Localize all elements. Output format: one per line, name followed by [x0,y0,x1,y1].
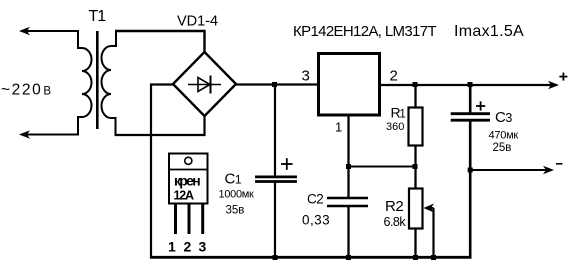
wire AC input bottom [21,134,79,136]
svg-text:1: 1 [335,120,342,135]
svg-text:крен: крен [174,173,200,189]
node C1 junction on + rail [272,82,277,87]
svg-text:470мк: 470мк [489,129,519,141]
node wiper on bottom rail [431,255,436,260]
svg-text:С2: С2 [307,192,323,207]
node C3 junction on + rail [468,82,473,87]
regulator package (TO-220 drawing) body [169,154,208,204]
resistor R2 leads [414,167,416,190]
wire secondary top to bridge [115,31,205,52]
svg-text:2: 2 [184,239,192,255]
minus terminal sign [556,163,562,165]
+ terminal sign [559,73,567,81]
svg-text:3: 3 [302,68,310,85]
svg-text:0,33: 0,33 [302,213,330,228]
wire regulator pin 1 down [347,115,349,198]
node R1 junction on + rail [413,82,418,87]
svg-text:Т1: Т1 [89,8,107,25]
svg-text:6.8k: 6.8k [384,215,407,229]
resistor R2 body (potentiometer) [409,189,423,229]
transformer T1 secondary winding [102,30,117,135]
svg-text:VD1-4: VD1-4 [177,14,218,30]
svg-text:12А: 12А [174,189,195,203]
wire secondary bottom to bridge bottom vertex [115,116,205,135]
package tab divider line [168,169,209,171]
wire AC input top [21,30,79,32]
capacitor C2 bottom lead [347,206,349,258]
svg-text:2: 2 [390,68,398,85]
transformer T1 core [96,31,99,129]
resistor R1 body [409,108,423,146]
bottom rail (DC-) [150,256,472,259]
capacitor C1 plus sign [281,158,293,170]
package leg 1 [174,204,177,234]
wire pin1 to R1/R2 junction [349,166,416,168]
svg-text:С1: С1 [225,171,242,188]
arrowhead AC top (points left) [19,27,30,35]
potentiometer wiper arrow [428,207,434,209]
svg-text:25в: 25в [493,142,512,154]
package leg 3 [201,204,204,234]
wire bridge left vertex (DC-) to bottom rail [151,85,173,259]
svg-text:35в: 35в [226,204,245,216]
wire minus output [470,169,551,171]
node C3 / minus-output junction [468,168,473,173]
node C2 on bottom rail [346,255,351,260]
capacitor C2 plates [327,197,368,199]
capacitor C1 leads [274,85,276,177]
svg-text:Imax1.5A: Imax1.5A [454,23,524,40]
wire wiper to bottom rail [432,208,434,258]
capacitor C1 plates [255,175,297,178]
wire bridge right vertex (DC+) to regulator input [236,83,318,85]
diode symbol inside bridge [188,76,221,94]
svg-text:КР142ЕН12А, LM317T: КР142ЕН12А, LM317T [293,23,436,40]
svg-text:R2: R2 [385,198,403,215]
diode bridge VD1-4 diamond [173,52,236,116]
svg-text:1000мк: 1000мк [219,188,255,200]
package leg 2 [188,204,191,234]
capacitor C3 plus sign [476,101,485,110]
voltage regulator U1 box [319,54,380,116]
arrowhead AC bottom (points left) [19,130,30,138]
svg-text:3: 3 [199,239,207,255]
node R1/R2 junction [413,164,418,169]
svg-text:1: 1 [168,239,176,255]
capacitor C3 plates [451,112,490,115]
arrowhead minus output (points right) [543,166,554,174]
transformer T1 primary winding [78,30,92,135]
capacitor C3 leads [469,85,472,114]
arrowhead + output (points right) [548,81,559,89]
node pin1/C2 junction [346,164,351,169]
svg-text:360: 360 [386,121,404,133]
wire regulator output to + terminal [381,84,556,86]
resistor R1 leads [414,85,416,109]
svg-text:С3: С3 [495,109,512,126]
package mounting hole [185,157,192,164]
node R2 on bottom rail [413,255,418,260]
node C1 on bottom rail [273,255,278,260]
